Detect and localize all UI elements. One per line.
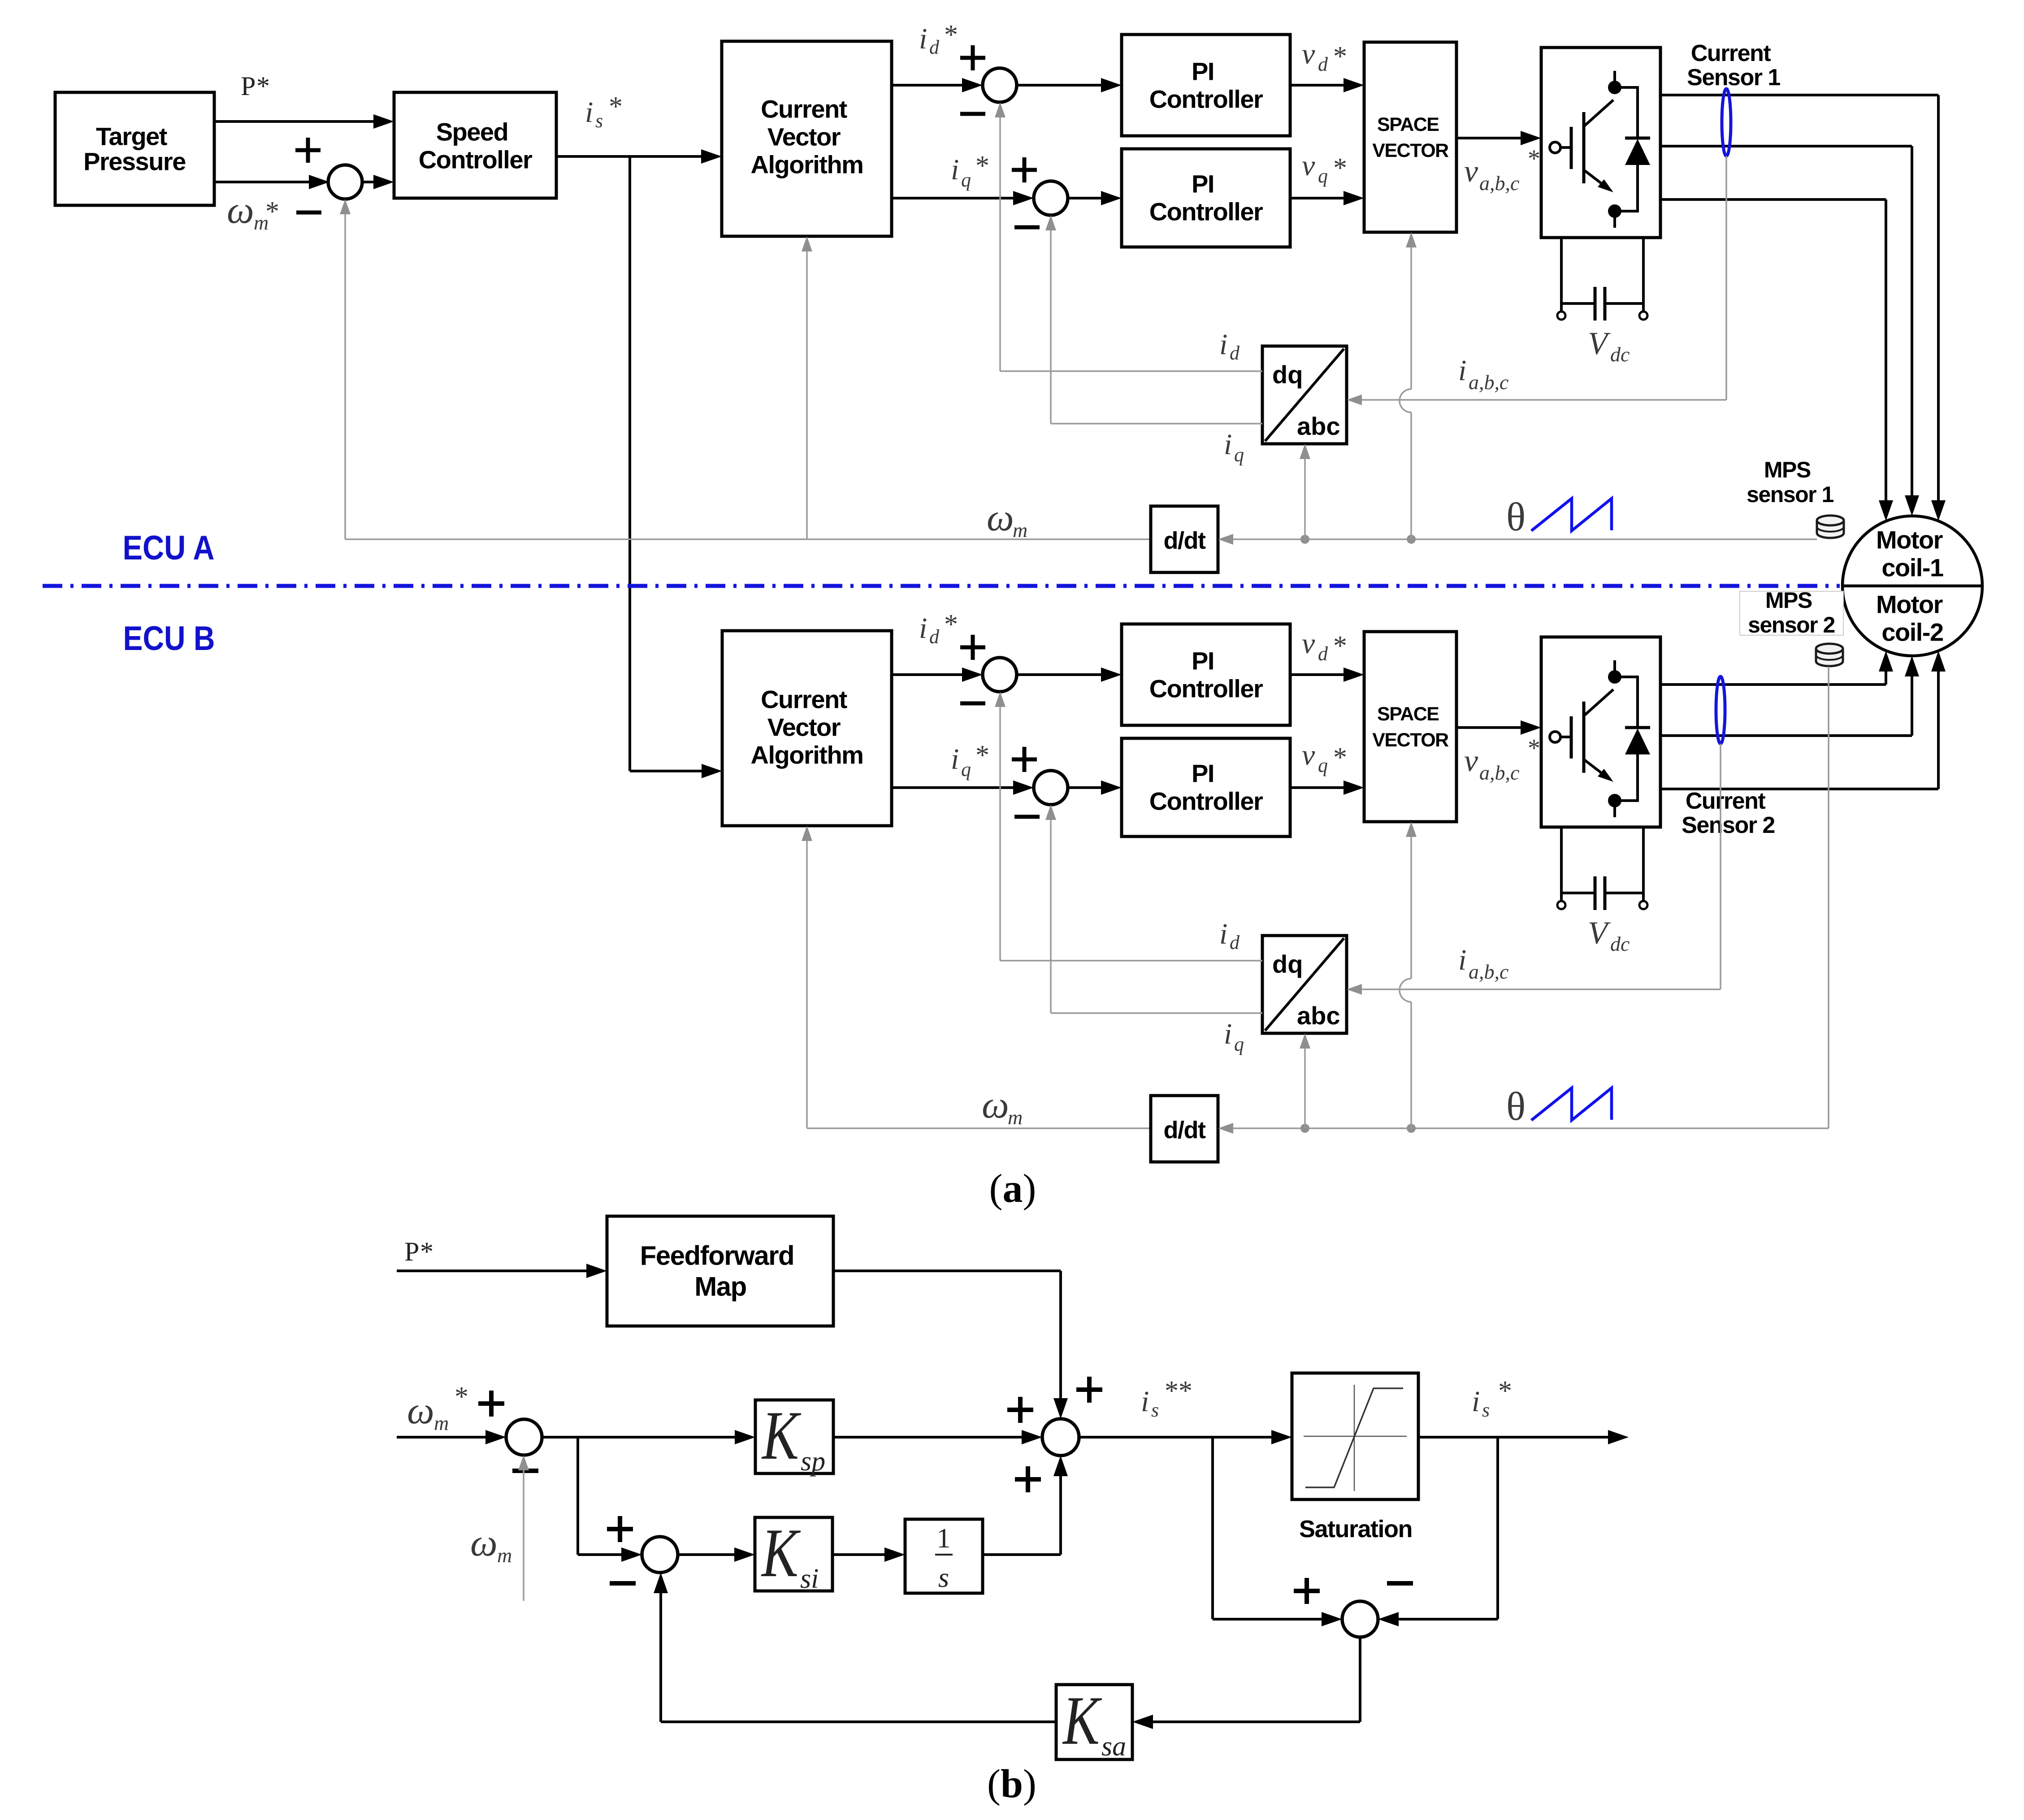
wire Ksa output to integral summing junction	[661, 1720, 1056, 1723]
IGBT gate bar	[1570, 716, 1573, 758]
wire id* reference to summing junction S1b	[892, 673, 963, 676]
wire id* reference to summing junction S1	[892, 84, 963, 87]
IGBT gate circle	[1550, 732, 1560, 742]
svg-text:ECU A: ECU A	[123, 529, 215, 567]
plus sign at S2b	[1012, 747, 1037, 772]
wire branch into saturation-compare summing junction (left)	[1213, 1618, 1322, 1621]
wire is* branch into Current Vector Algorithm B	[630, 770, 702, 772]
wire wm feedback line (ECU A)	[345, 538, 1151, 540]
junction dot theta to dq/abc A	[1300, 535, 1309, 544]
block: Current Vector Algorithm (ECU B)	[722, 631, 892, 826]
wire branch into integral summing junction	[578, 1553, 622, 1556]
wire Feedforward Map output to main summing junction	[833, 1270, 1061, 1272]
capacitor Vdc left plate (ECU A)	[1594, 287, 1597, 321]
wire iq* reference to summing junction S2b	[892, 786, 1014, 789]
current sensor 1 ellipse	[1722, 89, 1731, 156]
wire wm riser to Current Vector Algorithm B	[806, 840, 808, 1128]
wire speed error to Ksp	[542, 1436, 736, 1439]
wire collector node to freewheel diode	[1615, 86, 1638, 89]
current sensor 2 ellipse	[1716, 676, 1725, 744]
summing junction main (part b)	[1042, 1419, 1079, 1456]
IGBT emitter lead with arrow	[1584, 759, 1603, 774]
sawtooth symbol (ECU A)	[1531, 498, 1612, 531]
block: Saturation	[1292, 1373, 1418, 1499]
plus sign main sum (Ksp input)	[1007, 1397, 1033, 1423]
minus sign at saturation-compare junction	[1387, 1581, 1413, 1586]
sawtooth symbol (ECU B)	[1531, 1088, 1612, 1120]
motor circle (Motor coil-1 / Motor coil-2)	[1842, 516, 1982, 656]
svg-text:(a): (a)	[989, 1166, 1036, 1211]
block: inverter bridge box (ECU A)	[1541, 48, 1660, 238]
wire wm* into speed summing junction (part b)	[397, 1436, 486, 1439]
svg-text:θ: θ	[1506, 1084, 1526, 1129]
motor circle divider line	[1842, 585, 1982, 588]
wire MPS sensor 2 signal drop	[1828, 667, 1829, 1128]
block: Ksi gain	[755, 1517, 832, 1591]
block: inverter bridge box (ECU B)	[1541, 637, 1660, 827]
plus sign at saturation-compare junction	[1294, 1578, 1320, 1604]
summing junction saturation compare	[1342, 1601, 1378, 1637]
wire branch down before Saturation	[1211, 1437, 1214, 1619]
wire ia,b,c feedback into dq/abc B	[1361, 988, 1721, 990]
phase wire b (ECU B) to motor coil-2	[1660, 734, 1912, 737]
svg-text:P *: P *	[241, 71, 270, 101]
plus sign at speed summing junction (part b)	[478, 1391, 504, 1417]
phase wire a (ECU A) to motor coil-1	[1660, 94, 1938, 96]
minus sign at integral summing junction	[610, 1581, 636, 1586]
IGBT collector lead	[1584, 689, 1613, 716]
minus sign at S2b	[1014, 815, 1040, 819]
minus sign at S1	[960, 112, 985, 116]
IGBT emitter node dot	[1608, 794, 1621, 807]
wire collector node to freewheel diode	[1615, 676, 1638, 678]
wire main sum output to Saturation	[1079, 1436, 1272, 1439]
block: PI Controller (q-axis, ECU B)	[1122, 738, 1290, 836]
summing junction integral path	[642, 1537, 678, 1573]
phase wire c (ECU A) to motor coil-1	[1660, 198, 1886, 201]
wire S2b output to Ksi	[678, 1553, 735, 1556]
label box MPS sensor 2	[1740, 591, 1843, 635]
freewheel diode branch upper wire	[1636, 86, 1639, 138]
dc terminal right (ECU B)	[1639, 901, 1647, 909]
wire S1b to PI controller d-axis B	[1017, 673, 1102, 676]
IGBT body bar	[1582, 702, 1586, 773]
wire current sensor 2 signal drop	[1720, 744, 1721, 989]
wire dc-link left stub (ECU B)	[1560, 827, 1563, 901]
minus sign at S2	[1014, 225, 1040, 230]
svg-text:(b): (b)	[987, 1762, 1036, 1806]
dc terminal left (ECU B)	[1557, 901, 1565, 909]
freewheel diode cathode bar	[1625, 726, 1650, 729]
wire vq* to Space Vector B	[1290, 786, 1344, 789]
svg-text:Saturation: Saturation	[1299, 1516, 1412, 1543]
plus sign at S1	[960, 45, 985, 70]
block: SPACE VECTOR (ECU B)	[1364, 632, 1456, 822]
capacitor Vdc right plate (ECU B)	[1604, 876, 1607, 910]
capacitor Vdc left plate (ECU B)	[1594, 876, 1597, 910]
block: SPACE VECTOR (ECU A)	[1364, 42, 1456, 232]
wire saturation-compare output down	[1359, 1637, 1361, 1722]
block: PI Controller (d-axis, ECU B)	[1122, 624, 1290, 725]
IGBT gate circle	[1550, 142, 1560, 153]
capacitor Vdc right plate (ECU A)	[1604, 287, 1607, 321]
IGBT collector stub	[1613, 71, 1616, 82]
phase wire a (ECU B) to motor coil-2	[1660, 683, 1886, 686]
wire emitter node to freewheel diode	[1615, 210, 1638, 212]
svg-text:Motor coil-2: Motor coil-2	[1876, 590, 1949, 646]
IGBT collector stub	[1613, 660, 1616, 672]
MPS sensor 2 cylinder	[1816, 649, 1843, 666]
summing junction S1 (d-axis current error, ECU A)	[983, 68, 1017, 102]
wire branch into saturation-compare summing junction (right)	[1398, 1618, 1498, 1621]
wire vq* to Space Vector A	[1290, 197, 1344, 199]
svg-text:ECU B: ECU B	[123, 620, 215, 658]
wire is* branch down to ECU B	[628, 156, 631, 771]
plus sign at S2	[1012, 157, 1037, 182]
wire theta line from MPS sensor 2 to d/dt B	[1232, 1127, 1829, 1129]
wire dc-link to capacitor right (ECU B)	[1604, 892, 1643, 894]
wire va,b,c* from Space Vector A to inverter A	[1456, 137, 1521, 139]
wire vd* to Space Vector A	[1290, 84, 1344, 87]
freewheel diode branch upper wire	[1636, 676, 1639, 728]
wire speed reference to summing junction	[214, 181, 310, 183]
wire Saturation output is*	[1418, 1436, 1609, 1439]
minus sign at S1b	[960, 702, 985, 706]
wire dc-link to capacitor left (ECU A)	[1561, 302, 1596, 305]
wire S2b to PI controller q-axis B	[1068, 786, 1102, 789]
plus sign at integral summing junction	[607, 1516, 633, 1542]
block: PI Controller (q-axis, ECU A)	[1122, 149, 1290, 247]
wire dc-link to capacitor left (ECU B)	[1561, 892, 1596, 894]
wire id feedback from dq/abc B to S1b	[1000, 960, 1262, 962]
block: Ksa gain	[1056, 1685, 1132, 1759]
IGBT collector node dot	[1608, 670, 1621, 684]
wire dc-link right stub (ECU A)	[1642, 238, 1645, 312]
wire S0 to Speed Controller	[362, 181, 374, 183]
dc terminal left (ECU A)	[1557, 312, 1565, 320]
wire theta riser to Space Vector A with hop over ia,b,c	[1410, 412, 1412, 539]
wire Ksi output to integrator	[832, 1553, 885, 1556]
wire P* into Feedforward Map	[397, 1270, 587, 1272]
block: integrator 1/s	[905, 1519, 983, 1593]
block: d/dt (ECU B)	[1151, 1096, 1218, 1162]
wire branch down to integral path	[576, 1437, 579, 1555]
MPS sensor 1 cylinder	[1817, 520, 1844, 538]
IGBT emitter stub	[1613, 806, 1616, 817]
wire integrator output to main summing junction	[983, 1553, 1061, 1556]
block: PI Controller (d-axis, ECU A)	[1122, 35, 1290, 136]
summing junction speed error (part b)	[506, 1419, 542, 1455]
freewheel diode branch lower wire	[1636, 754, 1639, 802]
wire iq feedback from dq/abc A to S2	[1051, 423, 1262, 425]
IGBT gate lead	[1560, 736, 1570, 738]
block: Speed Controller	[394, 92, 556, 198]
IGBT gate lead	[1560, 146, 1570, 149]
IGBT emitter lead with arrow	[1584, 170, 1603, 185]
wire dc-link to capacitor right (ECU A)	[1604, 302, 1643, 305]
wire iq* reference to summing junction S2	[892, 197, 1014, 199]
plus sign at speed summing junction	[295, 138, 321, 163]
summing junction S2 (q-axis current error, ECU A)	[1034, 181, 1068, 215]
svg-text:P *: P *	[404, 1237, 433, 1266]
wire into Ksa	[1152, 1720, 1360, 1723]
IGBT collector lead	[1584, 100, 1613, 126]
wire dc-link right stub (ECU B)	[1642, 827, 1645, 901]
freewheel diode branch lower wire	[1636, 164, 1639, 212]
wire wm measured into summing junction (part b)	[523, 1469, 524, 1601]
wire wm riser to Current Vector Algorithm A	[806, 251, 808, 539]
wire wm feedback line (ECU B)	[807, 1127, 1151, 1129]
block: dq/abc transform (ECU B)	[1262, 936, 1347, 1033]
svg-text:Motor coil-1: Motor coil-1	[1876, 526, 1949, 582]
minus sign at speed summing junction (part b)	[512, 1469, 538, 1473]
wire emitter node to freewheel diode	[1615, 799, 1638, 802]
wire theta riser to dq/abc A	[1304, 458, 1306, 539]
svg-text:d/dt: d/dt	[1164, 1117, 1206, 1144]
wire S2 to PI controller q-axis	[1068, 197, 1102, 199]
wire S1 to PI controller d-axis	[1017, 84, 1102, 87]
IGBT body bar	[1582, 112, 1586, 183]
plus sign at S1b	[960, 635, 985, 660]
svg-text:Current Vector Algorithm: Current Vector Algorithm	[751, 95, 863, 179]
wire theta riser to Space Vector B with hop over ia,b,c	[1410, 1002, 1412, 1128]
block: Current Vector Algorithm (ECU A)	[722, 41, 892, 236]
wire iq feedback from dq/abc B to S2b	[1051, 1012, 1262, 1014]
svg-text:θ: θ	[1506, 495, 1526, 539]
summing junction S2b (q-axis current error, ECU B)	[1034, 771, 1068, 805]
block: dq/abc transform (ECU A)	[1262, 346, 1347, 444]
wire id feedback from dq/abc A to S1	[1000, 370, 1262, 372]
block: Ksp gain	[755, 1400, 833, 1473]
block: d/dt (ECU A)	[1151, 506, 1218, 572]
junction dot theta to dq/abc B	[1300, 1124, 1309, 1133]
phase wire c (ECU B) to motor coil-2	[1660, 788, 1938, 790]
freewheel diode triangle	[1625, 728, 1650, 754]
minus sign at speed summing junction	[296, 211, 321, 215]
wire theta riser to dq/abc B	[1304, 1048, 1306, 1128]
junction dot theta to Space Vector B	[1407, 1124, 1416, 1133]
blue dash-dot ECU divider line	[43, 584, 1840, 588]
block: Target Pressure	[55, 92, 214, 205]
phase wire b (ECU A) to motor coil-1	[1660, 145, 1912, 147]
wire vd* to Space Vector B	[1290, 673, 1344, 676]
wire P* reference from Target Pressure to Speed Controller	[214, 120, 374, 123]
wire ia,b,c feedback into dq/abc A	[1361, 399, 1726, 401]
wire is* from Speed Controller to Current Vector Algorithm A with branch to ECU B	[556, 155, 702, 158]
wire current sensor 1 signal drop	[1725, 156, 1727, 400]
wire dc-link left stub (ECU A)	[1560, 238, 1563, 312]
block: Feedforward Map	[607, 1216, 833, 1326]
IGBT collector node dot	[1608, 81, 1621, 94]
summing junction S1b (d-axis current error, ECU B)	[983, 658, 1017, 692]
svg-text:Current Sensor 2: Current Sensor 2	[1682, 788, 1775, 838]
wire theta line from MPS sensor 1 to d/dt A	[1232, 538, 1817, 540]
wire branch down after Saturation	[1496, 1437, 1499, 1619]
wire va,b,c* from Space Vector B to inverter B	[1456, 726, 1521, 729]
IGBT gate bar	[1570, 127, 1573, 169]
freewheel diode cathode bar	[1625, 137, 1650, 140]
wire Ksp output to main summing junction	[833, 1436, 1023, 1439]
svg-text:d/dt: d/dt	[1164, 527, 1206, 554]
IGBT emitter node dot	[1608, 204, 1621, 218]
junction dot theta to Space Vector A	[1407, 535, 1416, 544]
IGBT emitter stub	[1613, 216, 1616, 228]
plus sign main sum (feedforward input)	[1076, 1377, 1102, 1403]
summing junction S0 (speed error)	[328, 165, 362, 199]
svg-text:Current Vector Algorithm: Current Vector Algorithm	[751, 685, 863, 769]
svg-text:Current Sensor 1: Current Sensor 1	[1687, 40, 1780, 91]
wire wm riser to speed summing junction	[344, 213, 346, 539]
dc terminal right (ECU A)	[1639, 312, 1647, 320]
plus sign main sum (integrator input)	[1015, 1466, 1041, 1492]
svg-text:Target Pressure: Target Pressure	[83, 122, 186, 176]
freewheel diode triangle	[1625, 139, 1650, 165]
